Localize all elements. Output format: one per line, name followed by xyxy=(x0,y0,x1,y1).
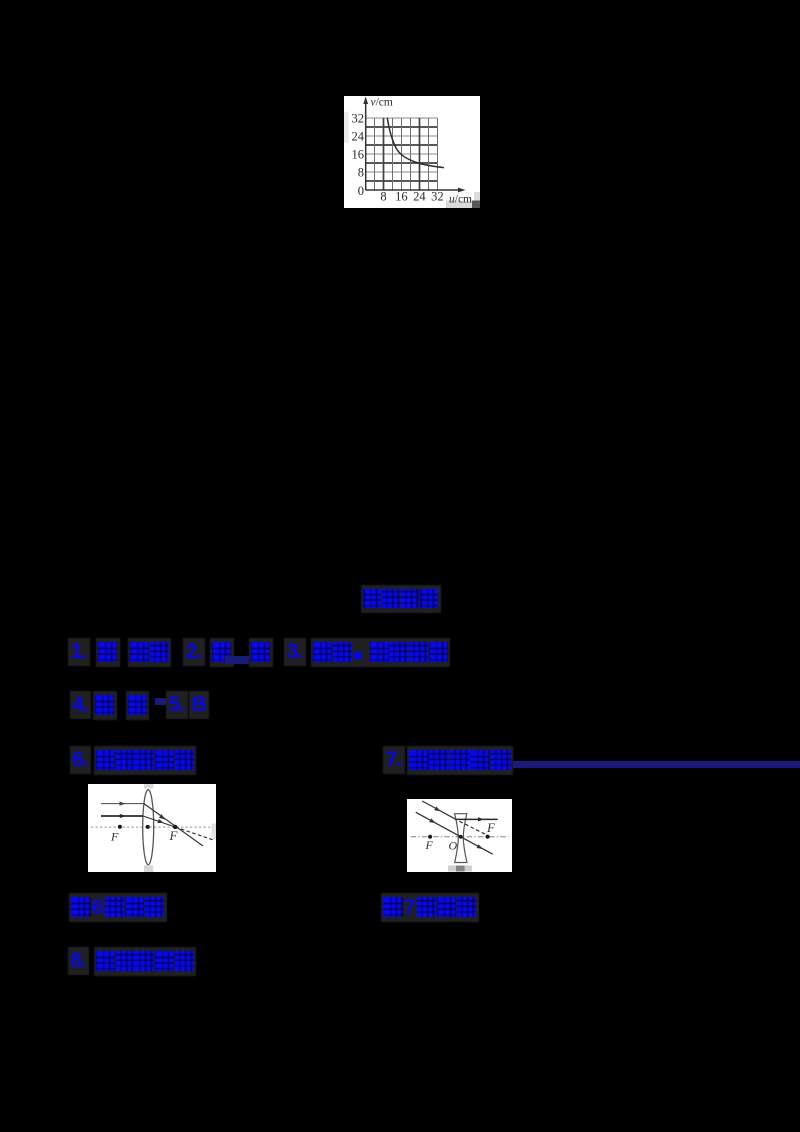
answer word 凸 (second) xyxy=(249,638,273,667)
incident ray lower (thick) xyxy=(101,815,143,817)
caption 第7题答图 xyxy=(381,893,479,922)
lens ellipse xyxy=(143,790,154,865)
gray nubs below lens xyxy=(448,865,472,871)
optical axis (dashed) xyxy=(91,826,211,828)
grid thick horizontal lines xyxy=(366,127,438,181)
incident ray 1 (aimed at right F) xyxy=(422,801,457,820)
incident ray upper (thin) xyxy=(101,803,144,805)
svg-text:8: 8 xyxy=(358,166,364,180)
svg-text:v/cm: v/cm xyxy=(371,97,393,109)
long navy underline to page edge xyxy=(513,761,800,768)
refracted ray from upper xyxy=(144,804,203,846)
focal point left xyxy=(428,835,432,839)
centre dot O xyxy=(459,835,463,839)
svg-text:16: 16 xyxy=(352,148,365,162)
caption 第6题答图 xyxy=(69,893,167,922)
answer word (char 1) xyxy=(93,691,117,720)
F labels xyxy=(110,828,179,844)
gray scan artifact left band xyxy=(344,112,349,144)
answer phrase 如答图所示 (item 6) xyxy=(94,746,196,775)
focal point right xyxy=(173,825,177,829)
svg-text:16: 16 xyxy=(395,190,408,204)
focal point left xyxy=(118,825,122,829)
item number 1. xyxy=(68,638,90,666)
item number 7. xyxy=(383,746,405,774)
incident ray 2 through O xyxy=(416,812,493,854)
grid thin horizontal lines xyxy=(366,118,438,172)
exit ray parallel to axis xyxy=(457,818,498,820)
gray nubs above/below lens xyxy=(144,784,153,788)
grid thick vertical lines (u=8, u=24) xyxy=(384,118,420,190)
item number 8. xyxy=(68,947,90,975)
item number 4. xyxy=(70,691,92,719)
svg-text:F: F xyxy=(425,838,434,852)
center dot xyxy=(146,825,150,829)
answer blank underline xyxy=(225,656,249,664)
concave lens body xyxy=(455,814,467,863)
grid thin vertical lines xyxy=(375,118,438,190)
answer word (char 2) xyxy=(126,691,150,720)
svg-text:24: 24 xyxy=(352,130,365,144)
axis labels xyxy=(352,97,473,206)
svg-text:F: F xyxy=(169,828,179,843)
answer word 会聚 xyxy=(128,638,171,667)
answer word 下 xyxy=(210,638,234,667)
small navy mark xyxy=(155,698,168,705)
item number 3. xyxy=(284,638,306,666)
item number 5. xyxy=(166,691,188,719)
svg-text:u/cm: u/cm xyxy=(449,194,472,206)
answer phrase 如答图所示 (item 8) xyxy=(94,947,196,976)
svg-text:8: 8 xyxy=(380,190,386,204)
gray scan artifacts bottom right xyxy=(446,201,472,209)
curve v=8u/(u-8) xyxy=(387,118,444,168)
labels xyxy=(425,820,497,853)
x axis xyxy=(366,189,461,191)
answer phrase 如答图所示 (item 7) xyxy=(407,746,513,775)
answer word 凸 xyxy=(96,638,120,667)
optical axis (dash-dot) xyxy=(411,836,509,838)
y axis arrow xyxy=(363,97,368,105)
svg-text:32: 32 xyxy=(352,112,365,126)
svg-text:F: F xyxy=(110,830,119,844)
svg-text:0: 0 xyxy=(358,184,364,198)
dashed virtual continuation toward F xyxy=(460,821,487,835)
refracted ray from lower xyxy=(143,816,175,827)
answer phrase 倒立、放大的实像 xyxy=(311,638,450,667)
focal point right xyxy=(486,835,490,839)
y axis xyxy=(365,99,367,190)
heading text 参考答案 xyxy=(361,585,441,613)
svg-text:24: 24 xyxy=(413,190,426,204)
item number 6. xyxy=(70,746,92,774)
svg-text:F: F xyxy=(486,820,496,835)
item number 2. xyxy=(183,638,205,666)
svg-text:32: 32 xyxy=(431,190,444,204)
svg-text:O: O xyxy=(449,839,458,853)
dashed continuation of lower ray beyond F xyxy=(175,827,212,840)
answer letter B xyxy=(189,691,209,719)
x axis arrow xyxy=(458,188,466,193)
